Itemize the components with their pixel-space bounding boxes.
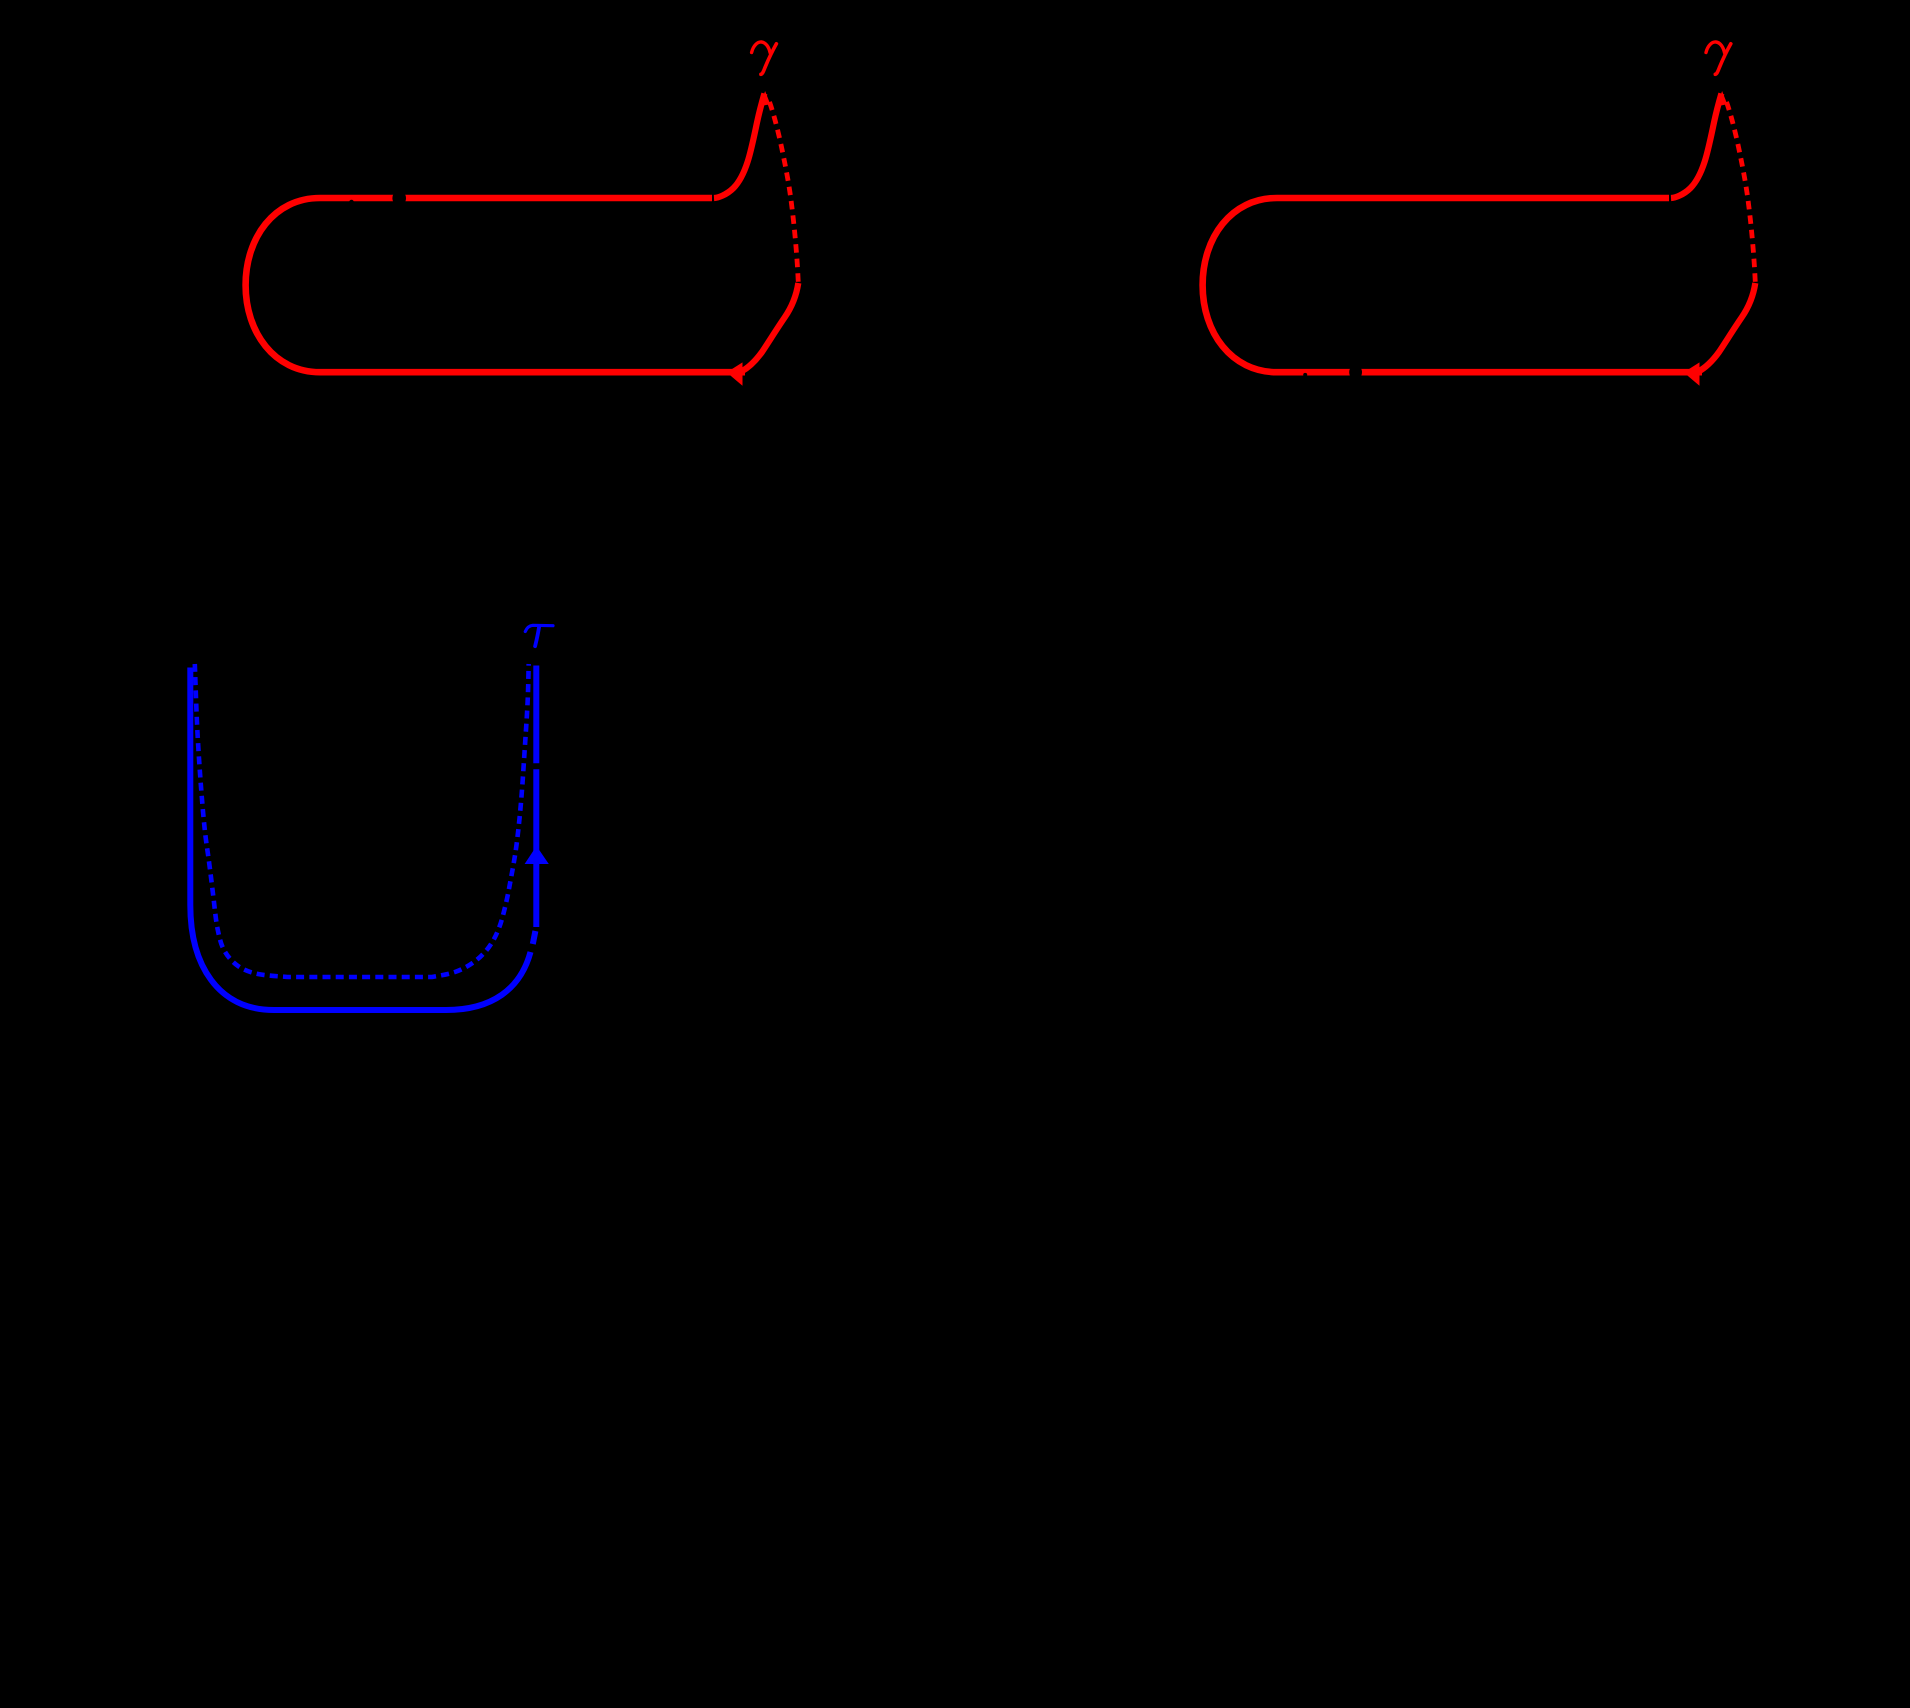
- red spike rise to apex (left contour): [714, 94, 764, 199]
- label gamma (right): main stroke: [1715, 44, 1731, 75]
- black nick on top line lower edge (left contour): [349, 200, 354, 205]
- blue dashed inner contour: left branch: [195, 664, 529, 977]
- red left arrowhead on bottom line (left contour): [727, 362, 743, 385]
- red dashed segment (left contour): [770, 102, 799, 283]
- red dashed segment (right contour): [1727, 102, 1756, 283]
- red solid descent to bottom line (left contour): [741, 283, 798, 372]
- label gamma (left): main stroke: [761, 44, 777, 75]
- label gamma (right): arch stroke: [1706, 42, 1725, 53]
- blue up arrowhead on right vertical: [525, 846, 549, 864]
- label tau: stem: [535, 626, 539, 646]
- red left arrowhead on bottom line (right contour): [1684, 362, 1700, 385]
- black notch crossing top line (left contour): [392, 191, 406, 206]
- black notch crossing bottom line (right contour): [1349, 365, 1362, 380]
- black dot on bottom line lower edge (right contour): [1303, 373, 1307, 377]
- blue solid contour tau: left vertical + bottom + right corner: [190, 668, 530, 1011]
- label gamma (left): arch stroke: [752, 42, 771, 53]
- red solid descent to bottom line (right contour): [1698, 283, 1755, 372]
- red contour gamma (right): bottom line + left cap + top line: [1203, 198, 1702, 372]
- blue solid right vertical upper segment: [533, 666, 539, 764]
- blue solid short tilted dash near bottom-right corner: [533, 931, 536, 944]
- red contour gamma (left): bottom line + left cap + top line: [246, 198, 745, 372]
- blue solid right vertical lower segment: [533, 769, 539, 927]
- red up arrowhead at spike apex (left): [760, 91, 771, 106]
- red spike rise to apex (right contour): [1671, 94, 1721, 199]
- label tau: top bar: [525, 625, 553, 631]
- red up arrowhead at spike apex (right): [1717, 91, 1728, 106]
